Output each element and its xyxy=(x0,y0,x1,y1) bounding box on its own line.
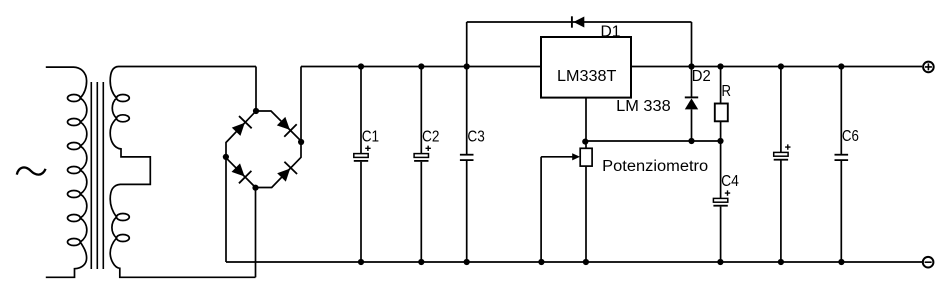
potentiometer body xyxy=(580,148,592,166)
junction pot - rail xyxy=(583,259,589,265)
wire C6 top xyxy=(840,67,842,155)
diode D2 xyxy=(685,97,698,109)
transformer T1 secondary winding with tap, top lead wire to bridge xyxy=(110,67,256,278)
node bridge DC minus xyxy=(223,154,229,160)
junction ADJ-R-C4 xyxy=(717,138,723,144)
svg-text:C6: C6 xyxy=(842,128,859,145)
svg-text:LM338T: LM338T xyxy=(557,68,617,85)
AC source tilde xyxy=(17,167,46,174)
svg-text:Potenziometro: Potenziometro xyxy=(602,158,708,175)
diode D1 xyxy=(572,16,584,27)
wire C5 bottom xyxy=(780,161,782,263)
junction + rail D1/D2 xyxy=(688,63,694,69)
terminal - output xyxy=(923,257,934,268)
regulator U1 LM338T box xyxy=(541,37,631,98)
wire + rail to regulator input xyxy=(301,66,541,68)
bridge diode upper-right xyxy=(275,115,297,137)
junction ADJ-pot xyxy=(582,139,588,145)
wire C1 bottom xyxy=(360,162,362,262)
capacitor C1 xyxy=(354,146,371,161)
wire AC bottom from bridge xyxy=(255,188,257,278)
junction C2 - rail xyxy=(418,259,424,265)
wire pot bottom xyxy=(585,166,587,262)
junction C1 - rail xyxy=(358,259,364,265)
wire D2 bottom xyxy=(691,109,693,141)
capacitor C4 xyxy=(713,190,730,205)
svg-text:C2: C2 xyxy=(422,128,439,145)
terminal + output xyxy=(923,62,934,73)
junction C3 - rail xyxy=(464,259,470,265)
capacitor C2 xyxy=(414,146,431,161)
wire C6 bottom xyxy=(840,160,842,262)
wire R bottom xyxy=(720,121,722,141)
wire bridge plus up xyxy=(300,67,302,142)
wire R top xyxy=(720,67,722,104)
wire wiper down xyxy=(540,157,542,262)
transformer T1 core xyxy=(91,82,103,269)
wire bridge minus down xyxy=(225,158,227,262)
node bridge AC top xyxy=(253,108,259,114)
wire C4 bottom xyxy=(720,207,722,262)
junction ADJ-D2 xyxy=(688,138,694,144)
wire C2 top xyxy=(420,67,422,154)
node bridge AC bottom xyxy=(252,185,258,191)
capacitor C6 xyxy=(835,155,849,160)
junction C6 - rail xyxy=(838,259,844,265)
capacitor C3 xyxy=(460,155,474,160)
wire C5 top xyxy=(780,67,782,153)
junction C5 + rail xyxy=(778,63,784,69)
junction C4 - rail xyxy=(717,259,723,265)
wire C3 bottom xyxy=(466,160,468,262)
svg-text:LM 338: LM 338 xyxy=(616,98,671,115)
svg-text:C3: C3 xyxy=(467,128,484,145)
junction C1 + rail xyxy=(358,63,364,69)
wire ADJ pin down xyxy=(585,98,587,141)
junction C5 - rail xyxy=(778,259,784,265)
wire AC top into bridge xyxy=(255,67,257,112)
wire D1 left leg xyxy=(466,22,468,67)
bridge diode upper-left xyxy=(230,116,252,138)
wire C2 bottom xyxy=(420,162,422,262)
wire C3 top xyxy=(466,67,468,155)
svg-text:R: R xyxy=(722,83,732,100)
junction R + rail xyxy=(717,63,723,69)
transformer T1 primary winding xyxy=(46,67,87,277)
junction C2 + rail xyxy=(418,63,424,69)
svg-text:C4: C4 xyxy=(721,173,739,190)
bridge rectifier ring xyxy=(226,111,301,188)
junction wiper - rail xyxy=(538,259,544,265)
bridge diode lower-left xyxy=(230,161,252,183)
wire ADJ rail xyxy=(586,140,721,142)
potentiometer wiper arrow xyxy=(541,153,580,160)
capacitor C5 xyxy=(774,144,791,159)
wire D1 right leg xyxy=(691,22,693,67)
wire pot top xyxy=(585,141,587,148)
node bridge DC plus xyxy=(298,139,304,145)
wire D1 top xyxy=(467,21,692,23)
junction C6 + rail xyxy=(838,63,844,69)
wire D2 top xyxy=(691,67,693,97)
bridge diode lower-right xyxy=(275,162,297,184)
wire - rail xyxy=(226,261,922,263)
svg-text:C1: C1 xyxy=(362,128,379,145)
resistor R xyxy=(715,104,728,122)
wire + rail regulator output xyxy=(631,66,922,68)
junction C3/D1 + rail xyxy=(464,63,470,69)
svg-text:D2: D2 xyxy=(692,68,711,85)
wire C1 top xyxy=(360,67,362,154)
wire C4 top xyxy=(720,141,722,198)
